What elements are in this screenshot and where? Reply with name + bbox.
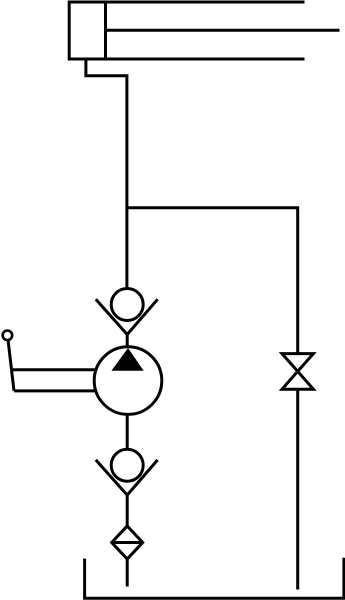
check valve CV2 ball bbox=[111, 449, 143, 481]
tank T1 bbox=[85, 558, 344, 599]
wire cylinder port to main line bbox=[86, 59, 127, 289]
wire branch to right bbox=[127, 208, 298, 354]
hand pump P1 circle bbox=[94, 347, 162, 415]
hand pump P1 flow triangle bbox=[112, 349, 142, 370]
check valve CV2 seat bbox=[96, 460, 158, 495]
cylinder C1 body bbox=[69, 2, 304, 59]
wire CV1 to pump bbox=[126, 335, 129, 348]
check valve CV1 ball bbox=[111, 289, 143, 321]
lever bracket bottom bbox=[14, 389, 97, 392]
piston bbox=[104, 2, 107, 59]
shut-off valve V1 lower triangle bbox=[282, 371, 313, 389]
piston rod bbox=[106, 29, 340, 32]
wire pump to CV2 bbox=[126, 414, 129, 449]
check valve CV1 seat bbox=[96, 299, 158, 334]
lever arm bbox=[8, 337, 14, 391]
filter F1 element line bbox=[112, 541, 143, 544]
filter F1 bbox=[112, 526, 143, 559]
wire CV2 to filter bbox=[126, 495, 129, 526]
lever bracket top bbox=[13, 368, 97, 371]
lever knob bbox=[3, 331, 13, 341]
shut-off valve V1 upper triangle bbox=[282, 354, 313, 372]
wire valve to tank bbox=[296, 389, 299, 589]
wire filter to tank bbox=[126, 559, 129, 587]
